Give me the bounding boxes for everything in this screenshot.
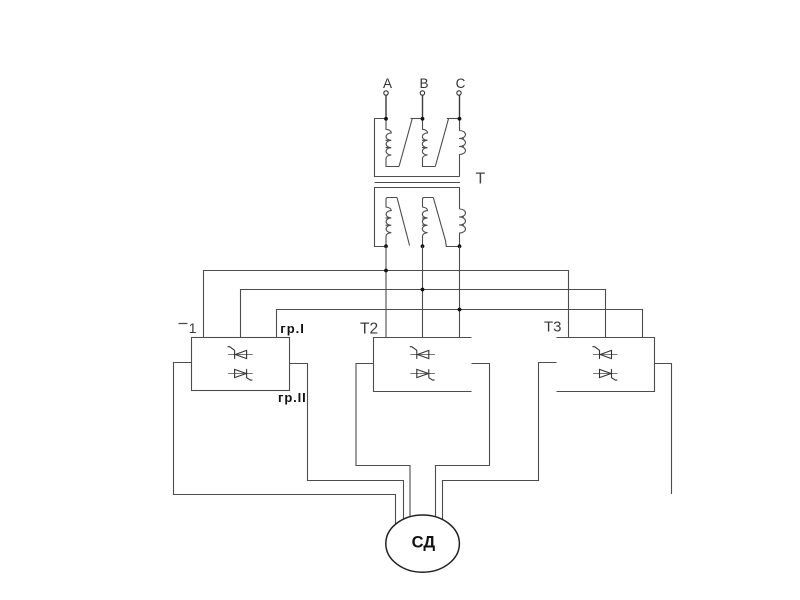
node primary B junction bbox=[421, 117, 425, 121]
transformer T primary winding B coil bbox=[422, 119, 435, 167]
svg-text:гр.I: гр.I bbox=[280, 321, 305, 336]
wire bus 3 (phase c to T1 and T3) bbox=[277, 310, 643, 338]
transformer T secondary winding a coil bbox=[386, 198, 397, 247]
converter block T3 box (open left side) bbox=[557, 338, 655, 392]
wire lead B bbox=[422, 95, 424, 118]
primary coil C ticks bbox=[459, 139, 464, 147]
svg-text:1: 1 bbox=[189, 320, 197, 336]
label T1 bbox=[179, 323, 188, 325]
wire T3 right output (unterminated) bbox=[655, 364, 672, 495]
node bus1-a junction bbox=[384, 269, 388, 273]
wire bus 2 (phase b to T1 and T3) bbox=[241, 290, 606, 338]
svg-text:T2: T2 bbox=[360, 321, 378, 338]
thyristor VS5 upper in T3 bbox=[593, 347, 618, 359]
wire secondary output a down to T2 bbox=[385, 246, 387, 337]
secondary winding a diagonal bbox=[397, 198, 410, 246]
node bus2-b junction bbox=[421, 288, 425, 292]
terminal circle B bbox=[420, 91, 424, 95]
primary coil A ticks bbox=[386, 140, 391, 147]
svg-text:СД: СД bbox=[412, 534, 436, 552]
wire bus 1 (phase a to T1 and T3) bbox=[204, 271, 569, 338]
transformer T primary winding A coil bbox=[386, 119, 399, 167]
wire primary A-B top link bbox=[411, 118, 423, 120]
thyristor VS4 lower in T2 bbox=[410, 369, 435, 380]
transformer T secondary winding b coil bbox=[422, 198, 433, 247]
secondary coil c ticks bbox=[459, 217, 464, 225]
svg-text:T: T bbox=[476, 171, 486, 188]
thyristor VS2 lower in T1 bbox=[228, 369, 253, 380]
thyristor VS6 lower in T3 bbox=[593, 369, 618, 380]
wire secondary output c down to T2 bbox=[459, 246, 461, 337]
node secondary b junction bbox=[421, 244, 425, 248]
wire lead C bbox=[459, 95, 461, 118]
wire T2 left output to motor bbox=[356, 364, 410, 520]
primary winding B delta diagonal to C bbox=[435, 119, 448, 167]
transformer T secondary outline (right stub, top, left edge, bottom stub) bbox=[375, 188, 460, 247]
node secondary c junction bbox=[458, 244, 462, 248]
svg-text:гр.II: гр.II bbox=[278, 390, 307, 405]
transformer T primary outline (left edge and bottom edge) bbox=[375, 119, 460, 177]
primary winding A delta diagonal to B bbox=[399, 119, 412, 167]
secondary winding b diagonal with elbow to c junction bbox=[433, 198, 459, 247]
node bus3-c junction bbox=[458, 308, 462, 312]
wire T1 left output to motor bbox=[174, 363, 396, 527]
transformer core line bbox=[375, 182, 461, 184]
node primary C junction bbox=[458, 117, 462, 121]
thyristor VS1 upper in T1 bbox=[228, 347, 253, 359]
wire secondary output b down to T2 bbox=[422, 246, 424, 337]
secondary coil a ticks bbox=[386, 218, 391, 225]
converter block T2 box (open right side) bbox=[374, 338, 472, 392]
motor SD circle bbox=[386, 515, 460, 572]
wire T3 left output to motor bbox=[443, 363, 557, 522]
svg-text:С: С bbox=[456, 76, 466, 91]
node secondary a junction bbox=[384, 244, 388, 248]
transformer T secondary winding c coil bbox=[460, 209, 466, 246]
transformer T primary winding C coil bbox=[460, 119, 466, 177]
wire lead A bbox=[385, 95, 387, 118]
svg-text:В: В bbox=[419, 76, 428, 91]
terminal circle C bbox=[457, 91, 461, 95]
wire T1 right output to motor bbox=[290, 364, 404, 523]
wire primary B-C top link bbox=[447, 118, 460, 120]
converter block T1 box bbox=[192, 338, 290, 391]
node primary A junction bbox=[384, 117, 388, 121]
terminal circle A bbox=[384, 91, 388, 95]
wire T2 right output to motor bbox=[436, 364, 490, 520]
primary coil B ticks bbox=[422, 140, 427, 147]
svg-text:А: А bbox=[383, 76, 392, 91]
secondary coil b ticks bbox=[422, 218, 427, 225]
svg-text:T3: T3 bbox=[544, 319, 562, 336]
thyristor VS3 upper in T2 bbox=[410, 347, 435, 359]
